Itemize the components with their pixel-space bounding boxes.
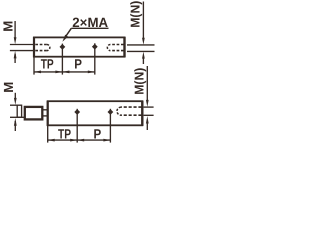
- svg-text:2×MA: 2×MA: [72, 15, 108, 30]
- svg-text:P: P: [94, 126, 102, 141]
- svg-text:TP: TP: [41, 56, 54, 71]
- svg-text:M(N): M(N): [127, 1, 142, 28]
- svg-text:TP: TP: [58, 126, 71, 141]
- svg-text:P: P: [74, 56, 82, 71]
- svg-text:M(N): M(N): [132, 68, 147, 95]
- svg-text:M: M: [1, 21, 16, 32]
- svg-text:M: M: [1, 82, 16, 93]
